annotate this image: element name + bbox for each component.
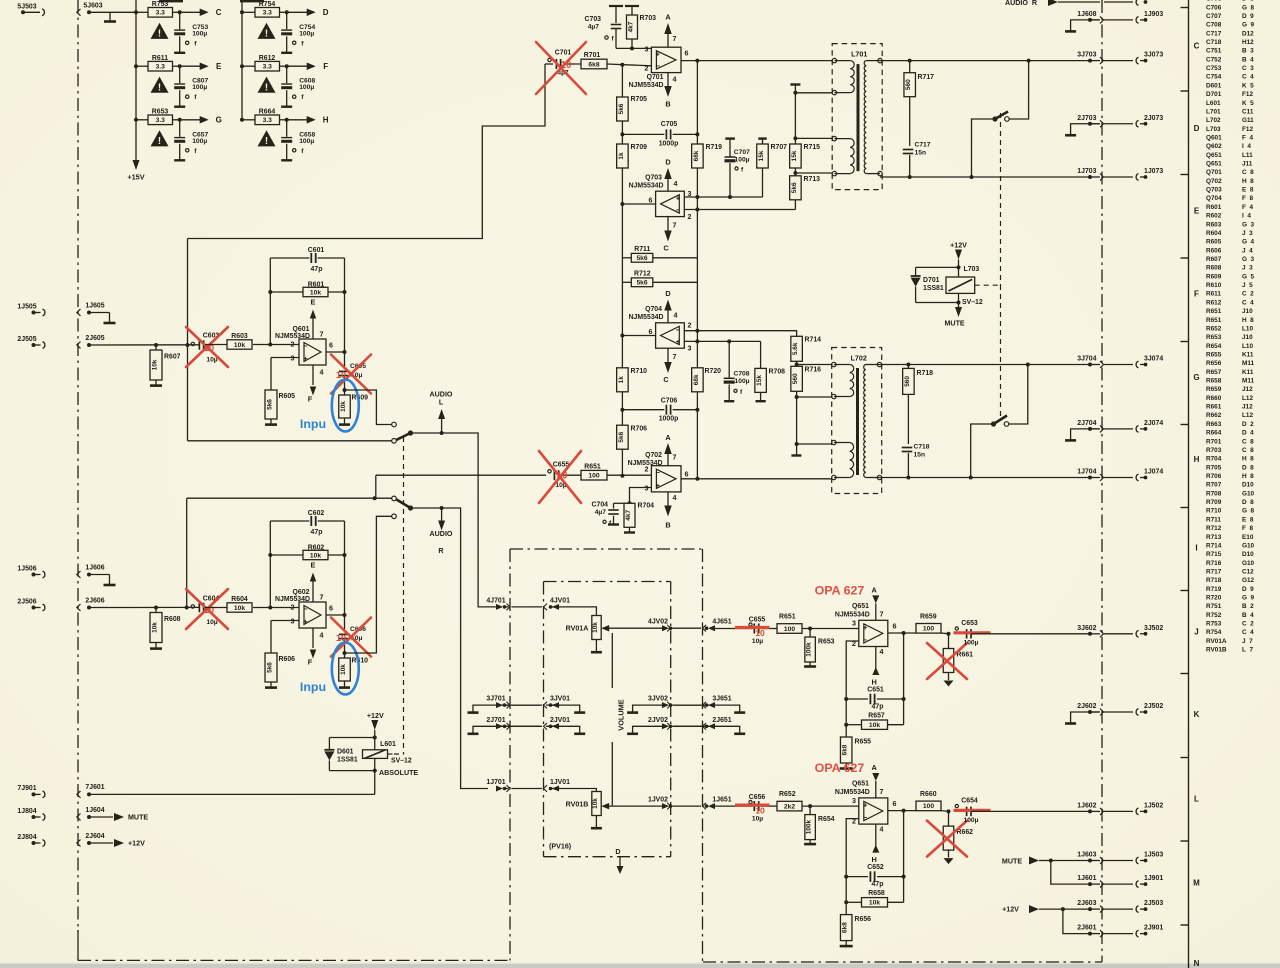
resistor R651: [777, 613, 859, 633]
svg-text:R719: R719: [1206, 586, 1225, 593]
L701 secondary winding: [864, 61, 880, 174]
svg-text:R715: R715: [1206, 551, 1225, 558]
svg-text:4: 4: [674, 180, 678, 188]
switch R pole lever: [397, 500, 414, 511]
red strike through C654: [954, 809, 991, 812]
wire Q702 pin3 to C704/R704: [628, 488, 652, 506]
svg-text:C 8: C 8: [1242, 447, 1254, 454]
svg-text:1JV01: 1JV01: [550, 779, 570, 786]
capacitor C604 10u (crossed): [191, 596, 219, 627]
wire Q703 pin2 to R713: [684, 208, 795, 212]
node D arrow above Q703: [664, 158, 672, 192]
svg-text:OPA 627: OPA 627: [815, 761, 865, 775]
svg-text:D601: D601: [1206, 82, 1225, 89]
connector 2JV01: [512, 717, 571, 730]
svg-text:C: C: [216, 8, 222, 17]
svg-text:100µ: 100µ: [299, 84, 314, 91]
svg-text:10: 10: [204, 605, 214, 615]
wire L701 secondary bottom to 1J703: [880, 175, 1090, 179]
relay L601 bottom wire: [373, 758, 377, 794]
wire bypass to switch L contact: [188, 440, 392, 442]
svg-text:R705: R705: [1206, 464, 1225, 471]
svg-text:VOLUME: VOLUME: [617, 699, 626, 730]
pin3 wire of Q602: [271, 620, 299, 622]
output wire Q602 pin6: [326, 614, 345, 616]
connector 3JV02: [648, 696, 672, 709]
svg-text:C717: C717: [915, 142, 931, 149]
svg-text:Q703: Q703: [1206, 187, 1225, 194]
blue oval around R609: [332, 380, 359, 432]
wire C655 branch to switch R contact: [375, 475, 377, 498]
resistor R653 3.3: [134, 109, 182, 125]
svg-text:10µ: 10µ: [752, 816, 763, 823]
svg-text:3.3: 3.3: [156, 117, 166, 124]
svg-text:Q701: Q701: [647, 74, 664, 81]
connector 3J704: [1077, 356, 1103, 369]
svg-text:3J502: 3J502: [1144, 625, 1163, 632]
wire C604 to R604: [205, 607, 227, 609]
connector 1J506: [17, 565, 45, 578]
grounded link 2JV02-2J651: [627, 726, 745, 734]
svg-text:15k: 15k: [756, 375, 763, 386]
wire to output connector: [971, 633, 1090, 635]
resistor R711 5k6 feedback: [622, 246, 697, 262]
svg-text:3.3: 3.3: [263, 10, 273, 17]
resistor R657 10k feedback: [846, 699, 903, 729]
svg-text:G 3: G 3: [1242, 221, 1255, 228]
svg-text:C 8: C 8: [1242, 438, 1254, 445]
svg-text:2J602: 2J602: [1077, 703, 1096, 710]
node A arrow above Q651: [872, 586, 880, 621]
arrow to node E: [180, 62, 222, 71]
svg-text:J11: J11: [1242, 161, 1253, 168]
mute switch 1 wires: [972, 61, 1029, 177]
op-amp Q702 NJM5534D: [628, 452, 689, 502]
svg-text:K 5: K 5: [1242, 82, 1254, 89]
input wire to Q602 pin2: [253, 607, 299, 609]
svg-text:1J703: 1J703: [1077, 168, 1096, 175]
svg-text:G10: G10: [1242, 560, 1255, 567]
svg-text:R659: R659: [920, 613, 937, 620]
svg-text:1J603: 1J603: [1077, 852, 1096, 859]
svg-text:R661: R661: [1206, 404, 1225, 411]
svg-text:H: H: [872, 678, 877, 687]
red cross over C605: [331, 355, 371, 394]
svg-text:A: A: [872, 586, 878, 595]
svg-text:!: !: [158, 28, 161, 39]
svg-text:RV01A: RV01A: [1206, 638, 1228, 645]
svg-text:Q704: Q704: [645, 306, 662, 313]
svg-text:Q704: Q704: [1206, 195, 1225, 202]
svg-text:1JV02: 1JV02: [648, 797, 668, 804]
svg-text:R651: R651: [1206, 308, 1225, 315]
diode D601 1SS81: [324, 738, 374, 771]
resistor R706 5k6: [617, 410, 648, 476]
svg-text:E: E: [216, 62, 222, 71]
svg-text:2J606: 2J606: [85, 597, 104, 604]
resistor R606 5k6 to ground: [265, 621, 295, 688]
svg-text:4J701: 4J701: [486, 597, 505, 604]
svg-text:2J506: 2J506: [17, 598, 36, 605]
node C arrow below Q704: [663, 348, 671, 384]
resistor R716 560: [791, 366, 821, 399]
svg-text:MUTE: MUTE: [128, 814, 148, 822]
svg-text:15k: 15k: [758, 150, 765, 161]
resistor R714 5.6k: [791, 336, 821, 366]
svg-text:3.3: 3.3: [263, 117, 273, 124]
svg-text:R651: R651: [1206, 317, 1225, 324]
svg-text:10k: 10k: [869, 722, 880, 729]
svg-text:3: 3: [852, 797, 856, 805]
svg-text:F 4: F 4: [1242, 204, 1253, 211]
svg-text:R706: R706: [631, 426, 648, 433]
svg-text:!: !: [265, 136, 268, 147]
node H arrow below Q651: [872, 824, 880, 864]
wire +12V to 2J603/2J601: [1063, 909, 1090, 934]
ground stub at 1J605: [89, 313, 116, 324]
long bypass wire to switch (R): [187, 497, 392, 499]
svg-text:H 8: H 8: [1242, 456, 1254, 463]
wire Q704 pin2 to R714: [684, 329, 796, 337]
svg-text:G: G: [1193, 373, 1199, 382]
svg-text:4µ7: 4µ7: [588, 24, 600, 31]
svg-text:L703: L703: [964, 266, 980, 273]
svg-text:R704: R704: [638, 502, 655, 509]
capacitor C655 10u (crossed) - feeds Q702: [548, 461, 581, 489]
svg-text:+: +: [656, 50, 661, 59]
svg-text:1J073: 1J073: [1144, 168, 1163, 175]
switch L output wire: [411, 433, 497, 607]
svg-text:−: −: [656, 62, 661, 71]
svg-text:3J703: 3J703: [1077, 52, 1096, 59]
svg-text:4k7: 4k7: [625, 510, 632, 521]
svg-text:R707: R707: [771, 144, 788, 151]
svg-text:R: R: [438, 547, 443, 555]
svg-text:!: !: [158, 82, 161, 93]
svg-text:R718: R718: [1206, 577, 1225, 584]
switch L pole lever: [397, 430, 414, 439]
feedback right vertical: [903, 633, 905, 725]
svg-text:C602: C602: [308, 510, 325, 517]
bias top bar: [790, 85, 800, 145]
svg-text:R712: R712: [1206, 525, 1225, 532]
capacitor C608 100u: [281, 66, 315, 107]
svg-text:MUTE: MUTE: [945, 320, 965, 328]
connector 2J073: [1104, 115, 1163, 127]
svg-text:+: +: [863, 623, 868, 632]
svg-text:H 8: H 8: [1242, 473, 1254, 480]
svg-text:R709: R709: [631, 144, 648, 151]
AUDIO R top feed: [1005, 0, 1147, 7]
svg-text:C707: C707: [734, 149, 750, 156]
svg-text:15n: 15n: [915, 150, 927, 157]
svg-text:R604: R604: [1206, 230, 1225, 237]
svg-text:47p: 47p: [872, 704, 884, 711]
svg-text:Q601: Q601: [293, 326, 310, 333]
+12V output arrow: [1002, 905, 1065, 914]
L701 core: [857, 64, 860, 171]
capacitor C658 100u: [281, 120, 315, 161]
inner box ground arrow D: [615, 848, 623, 874]
warning triangle near C657: [151, 130, 169, 146]
connector 1JV02: [648, 797, 672, 810]
svg-text:1J602: 1J602: [1077, 802, 1096, 809]
connector 1J074: [1104, 469, 1163, 481]
svg-text:R652: R652: [779, 791, 796, 798]
svg-text:R651: R651: [584, 463, 601, 470]
svg-text:D12: D12: [1242, 30, 1254, 37]
RV01A wiper arrow: [601, 625, 663, 632]
connector 2J701: [486, 717, 510, 730]
connector 1J601: [1077, 875, 1103, 888]
resistor R612 3.3: [240, 55, 289, 71]
svg-text:560: 560: [792, 373, 799, 384]
svg-text:C718: C718: [914, 444, 930, 451]
svg-text:+12V: +12V: [367, 712, 384, 720]
svg-text:D: D: [323, 8, 329, 17]
cut component stub top edge 2: [240, 0, 264, 2]
node C arrow below Q703: [663, 217, 671, 253]
svg-text:6: 6: [893, 623, 897, 631]
node A arrow above Q701: [664, 13, 672, 48]
Q651 pin2 feedback wire: [846, 641, 859, 699]
svg-text:A: A: [665, 433, 671, 442]
svg-text:OPA 627: OPA 627: [815, 584, 865, 598]
svg-text:2J074: 2J074: [1144, 420, 1163, 427]
svg-text:C705: C705: [1206, 0, 1225, 3]
feedback wire right vertical: [344, 521, 346, 615]
border break chevron at 5J603: [77, 9, 81, 16]
svg-text:E: E: [311, 298, 316, 307]
svg-text:B: B: [665, 521, 670, 530]
switch L contact a: [392, 422, 397, 427]
svg-text:R603: R603: [231, 333, 248, 340]
capacitor C652 47p: [844, 864, 905, 888]
svg-text:R751: R751: [1206, 603, 1225, 610]
warning triangle near C608: [258, 77, 276, 93]
resistor R754 3.3: [240, 1, 289, 17]
svg-text:7: 7: [880, 788, 884, 796]
svg-text:2: 2: [645, 466, 649, 474]
svg-text:3: 3: [852, 619, 856, 627]
svg-text:R713: R713: [1206, 534, 1225, 541]
svg-text:100µ: 100µ: [963, 817, 978, 824]
svg-text:C717: C717: [1206, 30, 1225, 37]
svg-text:E 8: E 8: [1242, 187, 1254, 194]
svg-text:3J701: 3J701: [486, 696, 505, 703]
svg-text:10k: 10k: [152, 622, 159, 633]
potentiometer RV01A 10k: [566, 616, 602, 653]
svg-text:L11: L11: [1242, 152, 1253, 159]
wire R651 line left segment: [376, 474, 546, 476]
wire Q703 pin3: [684, 195, 762, 199]
svg-text:G: G: [216, 116, 222, 125]
svg-text:560: 560: [905, 79, 912, 90]
second supply bus: [241, 0, 243, 120]
svg-text:2J603: 2J603: [1077, 900, 1096, 907]
AUDIO L tap arrow: [430, 391, 453, 436]
svg-text:15k: 15k: [791, 150, 798, 161]
feedback wire right vertical: [344, 258, 346, 352]
svg-text:2J502: 2J502: [1144, 703, 1163, 710]
connector 1J651: [672, 797, 732, 810]
wire C605 junction to switch contact: [345, 390, 392, 425]
svg-text:100µ: 100µ: [735, 378, 750, 385]
svg-text:E10: E10: [1242, 534, 1254, 541]
svg-text:6: 6: [649, 328, 653, 336]
svg-text:L702: L702: [851, 355, 867, 363]
svg-text:D 8: D 8: [1242, 464, 1254, 471]
svg-text:1SS81: 1SS81: [923, 285, 944, 292]
wire R714/R716 junction to L702 top: [797, 364, 832, 366]
resistor R720 68k: [692, 368, 722, 392]
svg-text:47p: 47p: [311, 266, 323, 273]
resistor R661 (crossed) to ground: [943, 634, 973, 687]
connector 2J506: [17, 598, 45, 611]
svg-text:L: L: [1194, 795, 1199, 804]
svg-text:R708: R708: [769, 369, 786, 376]
connector 1J606: [85, 564, 104, 576]
svg-text:C706: C706: [1206, 4, 1225, 11]
svg-text:AUDIO: AUDIO: [430, 530, 453, 538]
svg-text:−: −: [676, 206, 681, 215]
svg-text:G12: G12: [1242, 577, 1255, 584]
L701 primary winding lower: [834, 139, 854, 174]
volume gang line: [611, 633, 613, 805]
svg-text:100µ: 100µ: [192, 30, 207, 37]
svg-text:+12V: +12V: [1002, 906, 1019, 914]
svg-text:D701: D701: [1206, 91, 1225, 98]
red cross over C604: [186, 589, 228, 629]
node B arrow below Q701: [664, 73, 672, 109]
svg-text:C752: C752: [1206, 56, 1225, 63]
svg-text:R715: R715: [804, 144, 821, 151]
svg-text:R658: R658: [1206, 378, 1225, 385]
border break chevron: [77, 791, 81, 798]
resistor R653 100k to ground: [804, 629, 835, 667]
ground stub at 5J603: [109, 12, 111, 21]
MUTE input arrow: [89, 813, 148, 822]
svg-text:1SS81: 1SS81: [337, 756, 358, 763]
capacitor C601 47p: [270, 247, 344, 273]
op-amp Q651 NJM5534D: [835, 781, 897, 834]
capacitor C706 1000p: [620, 397, 699, 422]
svg-text:6: 6: [685, 471, 689, 479]
svg-text:2J651: 2J651: [712, 717, 731, 724]
svg-text:D 8: D 8: [1242, 0, 1254, 3]
svg-text:2JV01: 2JV01: [550, 717, 570, 724]
svg-text:5k6: 5k6: [267, 399, 274, 410]
red cross over R661: [927, 643, 967, 679]
svg-text:C 2: C 2: [1242, 621, 1254, 628]
svg-text:R704: R704: [1206, 456, 1225, 463]
connector 2J505: [17, 336, 45, 349]
svg-text:R714: R714: [805, 337, 822, 344]
svg-text:R608: R608: [1206, 265, 1225, 272]
svg-text:J 7: J 7: [1242, 638, 1253, 645]
wire R716 to L702 tap2: [797, 396, 832, 398]
svg-text:M: M: [1193, 879, 1200, 888]
svg-text:2: 2: [688, 322, 692, 330]
red strike through C656: [735, 803, 770, 806]
svg-text:D10: D10: [1242, 482, 1254, 489]
wire 4J651 to C655b: [715, 628, 752, 630]
svg-text:3JV02: 3JV02: [648, 696, 668, 703]
svg-text:K 5: K 5: [1242, 100, 1254, 107]
svg-text:R605: R605: [279, 393, 296, 400]
svg-text:6k8: 6k8: [588, 61, 599, 68]
resistor R604 10k: [227, 596, 252, 612]
connector 1JV01: [512, 779, 571, 792]
switch R contact a: [392, 496, 397, 501]
node A arrow above Q651: [872, 763, 880, 798]
resistor R651 100 (H8): [581, 463, 651, 480]
wire C606 junction to switch contact: [345, 516, 392, 653]
svg-text:10k: 10k: [340, 401, 347, 412]
svg-text:!: !: [265, 28, 268, 39]
resistor R753 3.3: [134, 1, 182, 17]
L702 terminals: [832, 362, 882, 479]
connector 4J701: [486, 597, 510, 610]
svg-text:R660: R660: [1206, 395, 1225, 402]
svg-text:J 3: J 3: [1242, 230, 1253, 237]
mute switches dashed gang link: [1000, 113, 1002, 285]
svg-text:3: 3: [291, 355, 295, 363]
svg-text:R706: R706: [1206, 473, 1225, 480]
op-amp Q701 NJM5534D: [629, 35, 689, 89]
svg-text:Inpu: Inpu: [300, 680, 326, 694]
svg-text:Q651: Q651: [852, 781, 869, 788]
capacitor C717 15n: [903, 142, 931, 178]
svg-text:R662: R662: [1206, 412, 1225, 419]
svg-text:7: 7: [673, 353, 677, 361]
capacitor C605 10u (crossed out): [339, 352, 366, 390]
svg-text:D 8: D 8: [1242, 499, 1254, 506]
node H arrow below Q651: [872, 647, 880, 687]
svg-text:10µ: 10µ: [752, 638, 763, 645]
svg-text:R612: R612: [1206, 299, 1225, 306]
svg-text:2J073: 2J073: [1144, 115, 1163, 122]
connector 1J602: [1077, 802, 1103, 815]
svg-text:2J901: 2J901: [1144, 925, 1163, 932]
wire right vertical Q701out-Q702out: [696, 197, 698, 479]
svg-text:A: A: [872, 763, 878, 772]
svg-text:2J601: 2J601: [1077, 925, 1096, 932]
svg-text:100µ: 100µ: [192, 84, 207, 91]
svg-text:2J704: 2J704: [1077, 420, 1096, 427]
svg-text:1J503: 1J503: [1144, 852, 1163, 859]
svg-text:R716: R716: [1206, 560, 1225, 567]
svg-text:15n: 15n: [914, 452, 926, 459]
svg-text:3: 3: [688, 345, 692, 353]
connector 2J704: [1065, 420, 1103, 441]
svg-text:R717: R717: [1206, 569, 1225, 576]
connector 3JV01: [512, 696, 571, 709]
svg-text:C751: C751: [1206, 48, 1225, 55]
svg-text:R708: R708: [1206, 490, 1225, 497]
svg-text:1J903: 1J903: [1144, 11, 1163, 18]
svg-text:100µ: 100µ: [963, 640, 978, 647]
svg-text:K: K: [1194, 710, 1200, 719]
red strike through C653: [954, 631, 991, 634]
svg-text:1k: 1k: [618, 152, 625, 160]
RV01B wiper arrow: [601, 803, 663, 810]
svg-text:R711: R711: [634, 246, 650, 253]
op-amp Q703 NJM5534D: [629, 174, 692, 229]
svg-text:D 2: D 2: [1242, 421, 1254, 428]
svg-text:4k7: 4k7: [628, 21, 635, 32]
svg-text:+: +: [303, 617, 308, 626]
